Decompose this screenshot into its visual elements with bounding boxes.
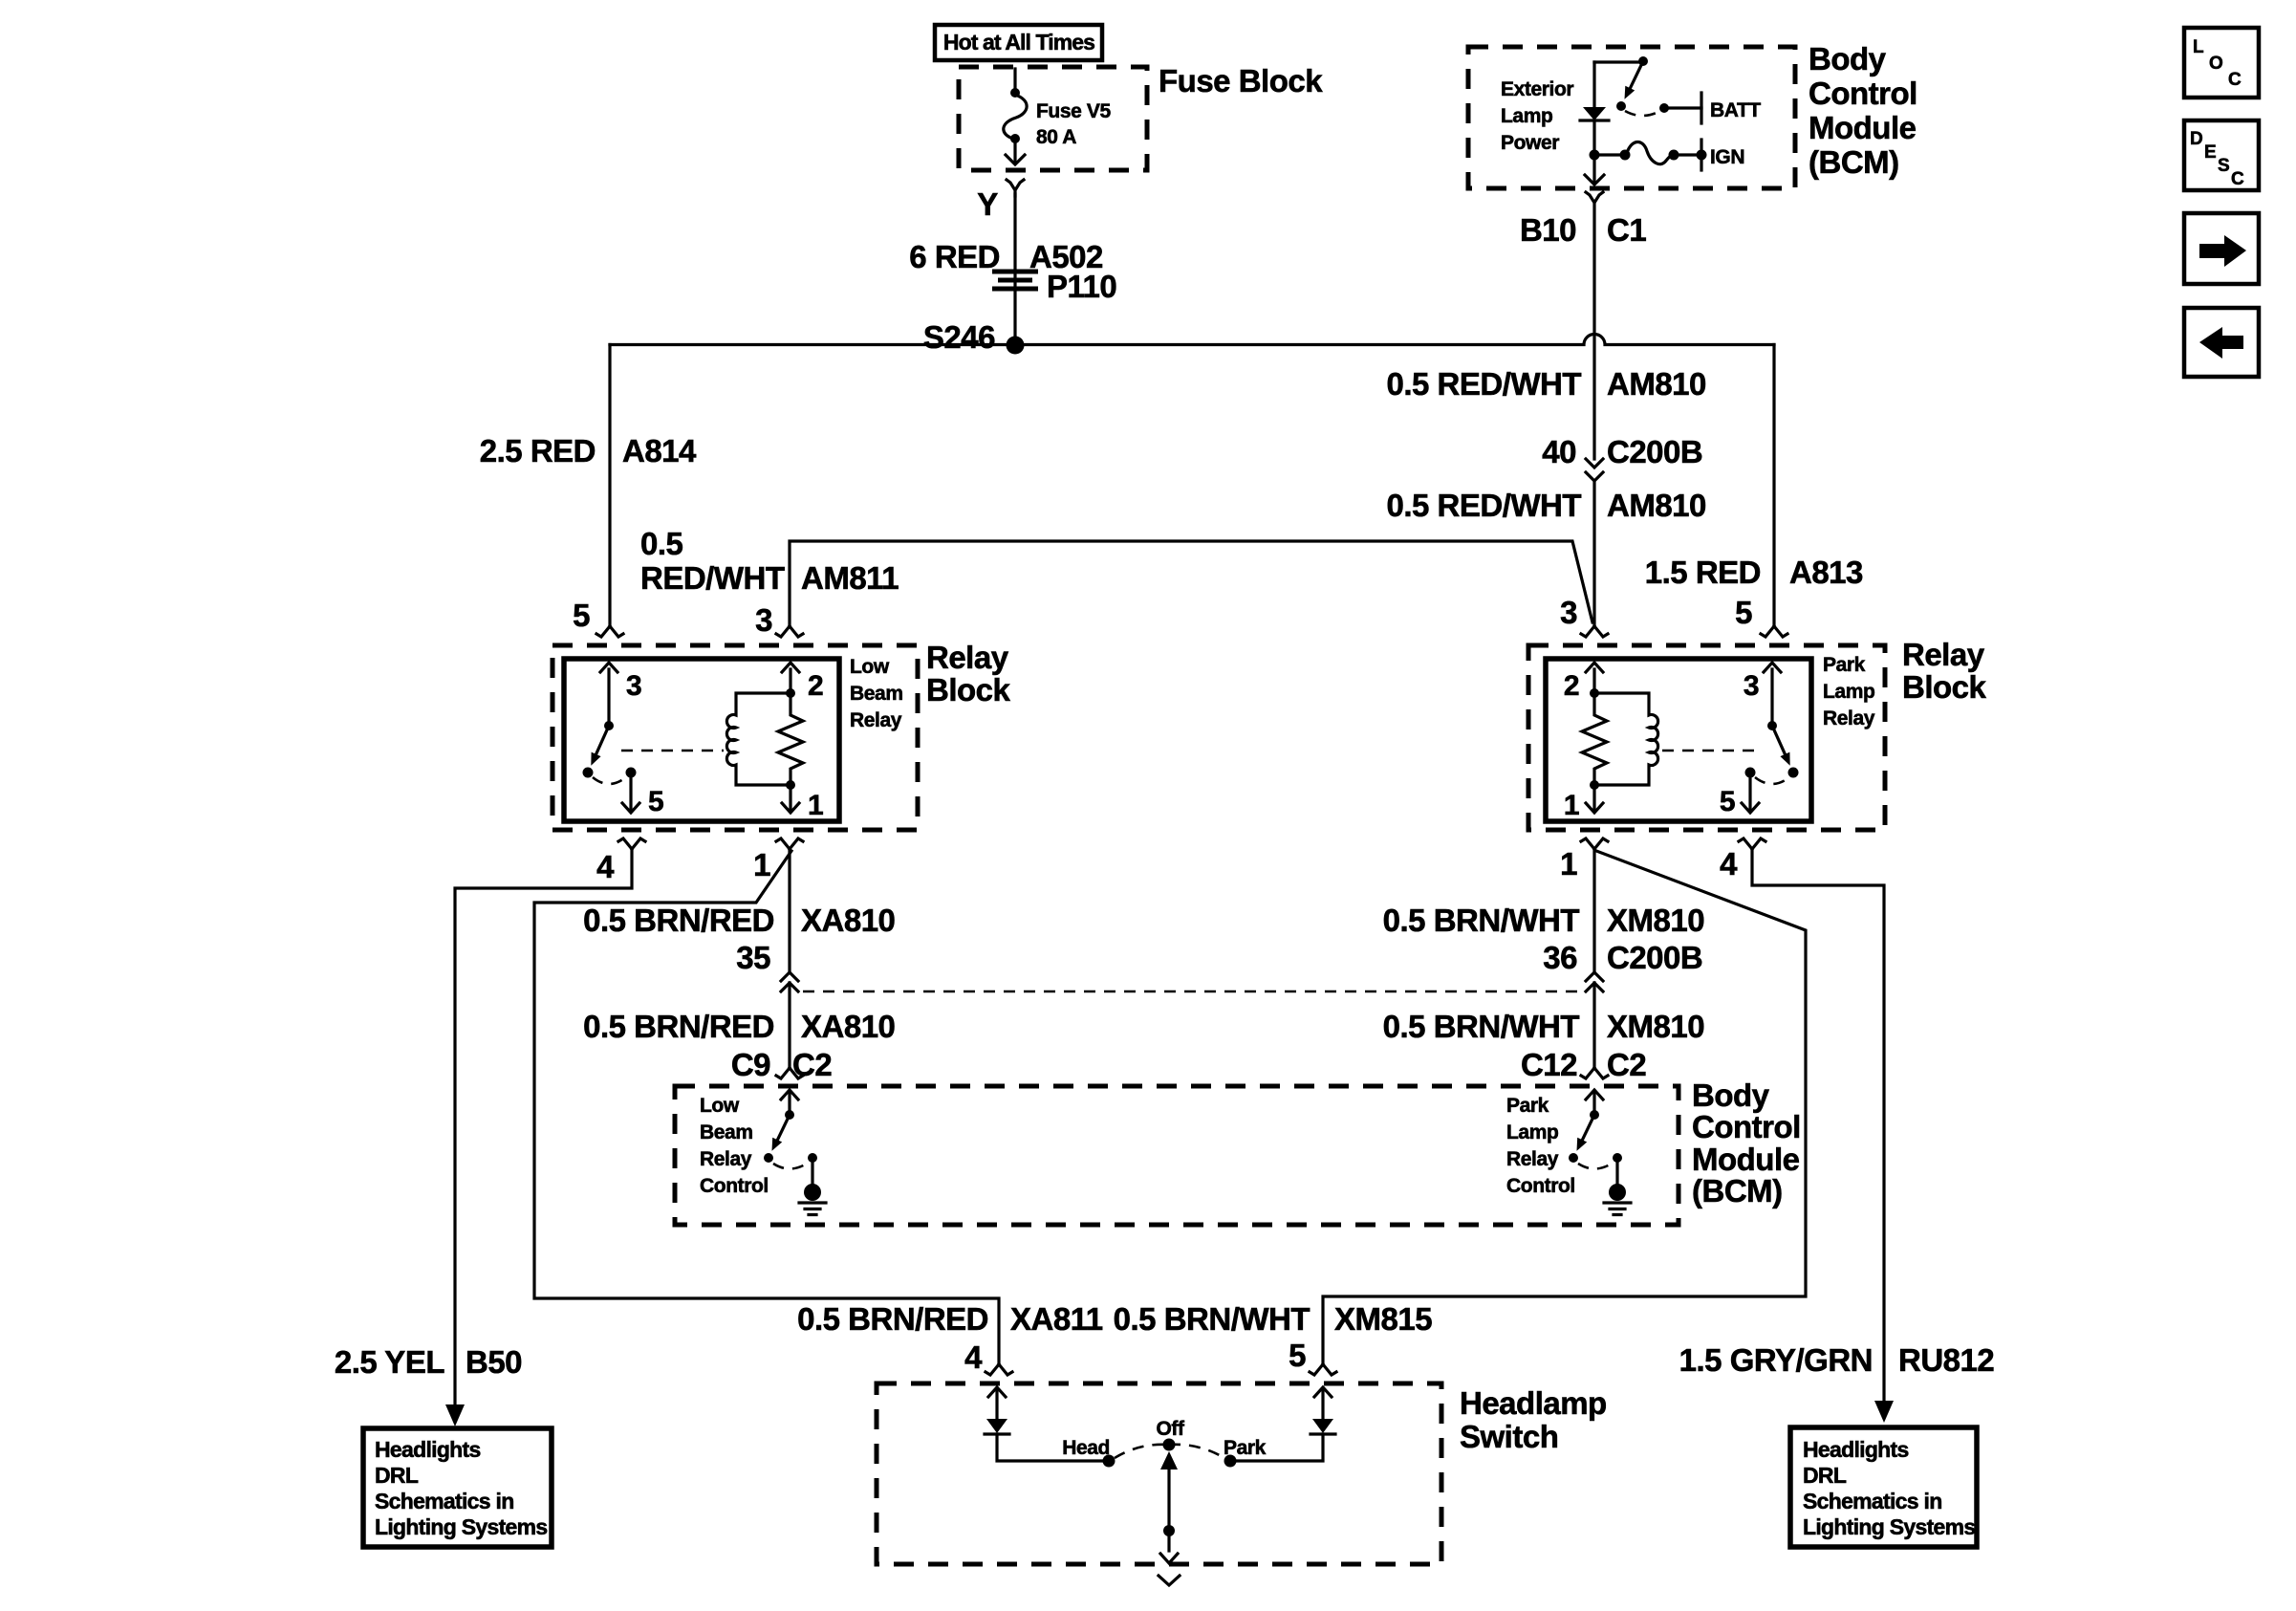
ground bars: [799, 1203, 826, 1215]
Headlamp Switch dashed box: [877, 1383, 1441, 1564]
svg-text:5: 5: [1720, 786, 1735, 817]
svg-text:DRL: DRL: [375, 1463, 419, 1488]
svg-text:Fuse V5: Fuse V5: [1036, 100, 1111, 122]
node top: [1590, 688, 1599, 698]
wire to ground: [1615, 1158, 1618, 1186]
armature arrow: [778, 1115, 790, 1139]
switch arm: [1631, 61, 1643, 87]
Low Beam Relay Control label: [700, 1095, 769, 1197]
headlamp switch internals right diode: [1224, 1387, 1336, 1468]
svg-text:XA811: XA811: [1010, 1301, 1103, 1337]
svg-text:0.5 BRN/WHT: 0.5 BRN/WHT: [1114, 1301, 1310, 1337]
svg-text:XM810: XM810: [1607, 1009, 1704, 1044]
left arrow icon: [2184, 308, 2259, 377]
svg-text:C9: C9: [731, 1047, 770, 1082]
wire fuse to S246: [1013, 194, 1016, 341]
wire connector to pin 3: [1592, 481, 1595, 626]
svg-text:5: 5: [1289, 1338, 1306, 1373]
Headlamp Switch label: [1460, 1385, 1607, 1454]
svg-text:Body: Body: [1692, 1078, 1770, 1113]
svg-text:XA810: XA810: [801, 1009, 895, 1044]
Park Lamp Relay label: [1823, 654, 1875, 729]
wire connector to C9: [788, 983, 791, 1067]
Relay Block label right: [1902, 637, 1987, 705]
svg-text:AM811: AM811: [801, 560, 899, 596]
headlights box left: [363, 1428, 552, 1547]
Body Control Module top dashed box: [1468, 47, 1795, 188]
node bottom: [786, 780, 795, 790]
svg-text:4: 4: [1720, 846, 1738, 882]
diode: [1312, 1419, 1333, 1433]
selector stem: [1160, 1451, 1178, 1563]
Head contact node: [1103, 1455, 1116, 1468]
wire 1.5 RED A813 drop: [1772, 345, 1775, 627]
moving contact node: [1616, 101, 1626, 111]
wire down to box edge: [1592, 155, 1595, 182]
inline connector 36 C200B: [1586, 972, 1603, 991]
terminal 1 wire arrow down: [782, 785, 799, 813]
pin Y below BCM: [1586, 192, 1603, 203]
wire to ground: [811, 1158, 813, 1186]
svg-text:Lamp: Lamp: [1823, 681, 1874, 703]
svg-text:Schematics in: Schematics in: [375, 1489, 514, 1513]
svg-text:Relay: Relay: [1823, 708, 1875, 729]
svg-text:4: 4: [964, 1339, 983, 1375]
BATT contact node: [1659, 103, 1669, 113]
Hot at All Times box: [935, 25, 1102, 60]
svg-text:2.5 RED: 2.5 RED: [480, 433, 596, 468]
pin Y into BCM C2 left: [776, 1068, 803, 1078]
svg-text:3: 3: [1744, 670, 1759, 702]
wire 2.5 RED A814 drop: [608, 345, 611, 627]
wire pin4 right to headlights right: [1752, 849, 1884, 1402]
svg-text:S: S: [2218, 156, 2230, 176]
terminal 1 wire arrow down: [1586, 785, 1603, 813]
Relay Block dashed box right: [1528, 645, 1885, 830]
dashed arc: [773, 1164, 807, 1169]
contact A node: [1788, 768, 1799, 778]
BCM internal circuit: [1580, 56, 1761, 185]
pin 2 arrow up: [1586, 663, 1603, 690]
ground bars: [1604, 1203, 1631, 1215]
Body Control Module (BCM) label: [1809, 41, 1917, 180]
pivot node: [1767, 721, 1777, 730]
svg-text:35: 35: [736, 940, 770, 975]
S246 splice junction dot: [1007, 337, 1025, 355]
terminal 5 wire arrow down: [1742, 773, 1759, 813]
svg-text:Control: Control: [1506, 1175, 1575, 1197]
headlights box right: [1790, 1427, 1977, 1547]
svg-text:Park: Park: [1506, 1095, 1549, 1117]
arrow up to pin: [1586, 1090, 1603, 1115]
svg-text:0.5 BRN/RED: 0.5 BRN/RED: [583, 903, 774, 938]
DESC icon: [2184, 120, 2259, 190]
wire AM811 link left pin3 to right pin3: [790, 541, 1592, 626]
wire top horizontal: [1594, 60, 1640, 63]
svg-text:1: 1: [753, 847, 770, 882]
pin 3 arrow up: [1764, 663, 1781, 726]
coil: [1594, 693, 1658, 785]
pin 3 Y connector left relay: [776, 626, 803, 637]
park lamp relay coil and resistor: [1564, 663, 1658, 821]
svg-text:Control: Control: [700, 1175, 769, 1197]
Off contact node: [1163, 1439, 1176, 1451]
svg-text:Park: Park: [1823, 654, 1866, 676]
wire pin4 to headlights left: [455, 849, 632, 1405]
pivot node: [1590, 1110, 1599, 1120]
dashed arc: [593, 777, 626, 784]
svg-text:Relay: Relay: [1506, 1148, 1559, 1170]
svg-text:5: 5: [573, 598, 590, 633]
park lamp relay switch: [1720, 663, 1799, 817]
node bottom: [1590, 780, 1599, 790]
svg-text:Headlamp: Headlamp: [1460, 1385, 1607, 1421]
svg-text:Exterior: Exterior: [1501, 78, 1573, 100]
svg-text:Relay: Relay: [850, 709, 902, 731]
IGN junction node: [1590, 150, 1600, 161]
arrow into headlights box left: [445, 1404, 465, 1426]
svg-text:L: L: [2193, 37, 2204, 57]
svg-text:0.5 BRN/RED: 0.5 BRN/RED: [797, 1301, 988, 1337]
svg-text:C1: C1: [1607, 212, 1646, 248]
svg-text:C: C: [2228, 70, 2242, 90]
svg-text:80 A: 80 A: [1036, 126, 1076, 148]
LOC icon: [2184, 28, 2259, 98]
Exterior Lamp Power label: [1501, 78, 1573, 154]
wire to Park contact: [1235, 1434, 1323, 1461]
inline connector 35 C200B: [781, 972, 798, 991]
svg-text:DRL: DRL: [1803, 1463, 1847, 1488]
pin Y into BCM C2 right: [1581, 1068, 1608, 1078]
pin 3 arrow up: [600, 663, 617, 726]
svg-text:C200B: C200B: [1607, 940, 1702, 975]
contact B node: [626, 768, 637, 778]
svg-text:2: 2: [1564, 670, 1579, 702]
wire pin1 right straight down XM810: [1592, 849, 1595, 971]
svg-text:Head: Head: [1062, 1437, 1110, 1459]
diode exterior lamp power: [1592, 62, 1595, 107]
pin 3 Y connector right relay: [1581, 626, 1608, 637]
Body Control Module (BCM) label middle: [1692, 1078, 1801, 1208]
low beam relay coil and resistor: [726, 663, 823, 821]
dashed arc: [1755, 777, 1789, 784]
IGN wire: [1594, 153, 1621, 156]
svg-text:Body: Body: [1809, 41, 1887, 76]
svg-text:Headlights: Headlights: [1803, 1437, 1909, 1462]
svg-text:1: 1: [1564, 790, 1579, 821]
wire pin1 right diagonal to headlamp switch pin5: [1323, 851, 1806, 1364]
svg-text:4: 4: [596, 849, 615, 884]
svg-text:Lighting Systems: Lighting Systems: [1803, 1514, 1976, 1539]
svg-text:C: C: [2231, 169, 2244, 189]
relay link dashed line left: [621, 750, 724, 752]
svg-text:IGN: IGN: [1710, 146, 1744, 168]
C200B dashed link line: [803, 991, 1581, 993]
low beam relay inner box: [564, 659, 839, 821]
wire into fuse block: [1013, 69, 1016, 88]
svg-text:(BCM): (BCM): [1809, 144, 1899, 180]
svg-text:0.5 RED/WHT: 0.5 RED/WHT: [1386, 488, 1581, 523]
svg-text:Park: Park: [1224, 1437, 1267, 1459]
svg-text:D: D: [2190, 129, 2203, 149]
IGN squiggle: [1627, 142, 1673, 163]
terminal 5 wire arrow down: [622, 773, 639, 813]
node top: [786, 688, 795, 698]
pin 2 arrow up: [782, 663, 799, 690]
wire pin1 left diagonal to headlamp switch: [534, 851, 999, 1364]
pin 1 Y connector left relay bottom: [776, 838, 803, 849]
arrow into headlights box right: [1874, 1401, 1894, 1423]
right arrow icon: [2184, 213, 2259, 284]
svg-text:2.5 YEL: 2.5 YEL: [335, 1344, 444, 1380]
inline connector C200B: [1586, 459, 1603, 481]
ground dot: [804, 1184, 821, 1201]
svg-text:0.5 BRN/RED: 0.5 BRN/RED: [583, 1009, 774, 1044]
contact A node: [764, 1153, 773, 1163]
svg-text:C12: C12: [1521, 1047, 1577, 1082]
svg-text:Switch: Switch: [1460, 1419, 1558, 1454]
dashed selector arc: [1115, 1445, 1224, 1458]
svg-text:Module: Module: [1809, 110, 1917, 145]
low beam relay switch: [583, 663, 664, 817]
svg-text:1.5 GRY/GRN: 1.5 GRY/GRN: [1679, 1342, 1873, 1378]
svg-text:3: 3: [626, 670, 641, 702]
svg-text:AM810: AM810: [1607, 488, 1706, 523]
svg-text:Lamp: Lamp: [1501, 105, 1552, 127]
svg-text:0.5 BRN/WHT: 0.5 BRN/WHT: [1383, 903, 1580, 938]
svg-text:1: 1: [808, 790, 823, 821]
bus wire S246 with hop over BCM wire: [610, 335, 1774, 345]
headlights text right: [1803, 1437, 1976, 1539]
coil: [726, 693, 791, 785]
arrow up to pin 5: [1314, 1387, 1332, 1419]
park lamp relay control switch: [1569, 1090, 1631, 1215]
svg-text:1: 1: [1560, 846, 1577, 882]
pin chevron below switch box: [1159, 1576, 1180, 1585]
BATT terminal tick: [1700, 93, 1702, 123]
svg-text:Relay: Relay: [700, 1148, 752, 1170]
svg-text:36: 36: [1543, 940, 1577, 975]
armature arrow: [596, 726, 609, 753]
svg-text:3: 3: [755, 602, 772, 638]
svg-text:XM810: XM810: [1607, 903, 1704, 938]
svg-text:Low: Low: [700, 1095, 740, 1117]
svg-text:5: 5: [648, 786, 663, 817]
svg-text:6 RED: 6 RED: [909, 239, 1000, 274]
resistor: [778, 693, 803, 785]
svg-text:C200B: C200B: [1607, 434, 1702, 469]
diode: [986, 1419, 1007, 1433]
headlamp switch internals left diode: [985, 1387, 1116, 1468]
svg-text:A813: A813: [1789, 555, 1863, 590]
svg-text:40: 40: [1542, 434, 1576, 469]
svg-text:Lighting Systems: Lighting Systems: [375, 1514, 548, 1539]
arrow up to pin: [781, 1090, 798, 1115]
svg-text:BATT: BATT: [1710, 99, 1761, 121]
svg-text:Off: Off: [1156, 1418, 1185, 1440]
arrow up to pin 4: [988, 1387, 1006, 1419]
IGN terminal tick: [1700, 140, 1702, 170]
svg-text:0.5: 0.5: [640, 526, 683, 561]
contact B node: [1613, 1153, 1622, 1163]
svg-text:Relay: Relay: [1902, 637, 1985, 672]
svg-text:1.5 RED: 1.5 RED: [1645, 555, 1761, 590]
Park Lamp Relay Control label: [1506, 1095, 1575, 1197]
svg-text:RU812: RU812: [1898, 1342, 1994, 1378]
low beam relay control switch: [764, 1090, 826, 1215]
svg-text:Beam: Beam: [850, 683, 903, 705]
svg-text:A814: A814: [622, 433, 697, 468]
svg-text:Schematics in: Schematics in: [1803, 1489, 1942, 1513]
switch pin 5 Y connector: [1310, 1364, 1336, 1375]
pin 1 Y connector right relay bottom: [1581, 838, 1608, 849]
svg-text:XM815: XM815: [1334, 1301, 1432, 1337]
Fuse Block dashed box: [959, 67, 1147, 170]
svg-text:RED/WHT: RED/WHT: [640, 560, 785, 596]
svg-text:O: O: [2209, 54, 2223, 74]
svg-text:P110: P110: [1047, 269, 1116, 304]
svg-text:Relay: Relay: [926, 640, 1009, 675]
wire connector to C12: [1592, 983, 1595, 1067]
svg-text:Beam: Beam: [700, 1121, 753, 1143]
armature arrow: [1772, 726, 1785, 753]
pivot node: [785, 1110, 794, 1120]
switch pin 4 Y connector: [986, 1364, 1012, 1375]
resistor: [1582, 693, 1607, 785]
contact B node: [808, 1153, 817, 1163]
svg-text:Block: Block: [1902, 669, 1987, 705]
contact A node: [583, 768, 594, 778]
armature arrow: [1583, 1115, 1594, 1139]
wire BCM to relay pin 3: [1592, 203, 1595, 459]
pin 4 Y connector right relay bottom: [1739, 838, 1765, 849]
node top: [1638, 56, 1648, 66]
Park contact node: [1224, 1455, 1237, 1468]
svg-text:B10: B10: [1520, 212, 1576, 248]
BATT wire: [1664, 106, 1701, 109]
dashed arc to BATT: [1625, 111, 1660, 116]
pin 5 Y connector right relay: [1761, 626, 1787, 637]
fuse V5 symbol: [1004, 88, 1027, 164]
Relay Block label left: [926, 640, 1011, 708]
svg-text:0.5 BRN/WHT: 0.5 BRN/WHT: [1383, 1009, 1580, 1044]
dashed arc: [1578, 1164, 1612, 1169]
headlights text left: [375, 1437, 548, 1539]
svg-text:3: 3: [1560, 595, 1577, 630]
contact A node: [1569, 1153, 1578, 1163]
svg-text:Fuse Block: Fuse Block: [1159, 63, 1323, 98]
svg-text:S246: S246: [923, 319, 995, 355]
svg-text:Hot at All Times: Hot at All Times: [943, 30, 1094, 54]
pivot node: [604, 721, 614, 730]
svg-text:AM810: AM810: [1607, 366, 1706, 402]
svg-text:Block: Block: [926, 672, 1011, 708]
svg-text:Low: Low: [850, 656, 890, 678]
svg-text:C2: C2: [1607, 1047, 1646, 1082]
contact B node: [1745, 768, 1756, 778]
ground dot: [1609, 1184, 1626, 1201]
relay link dashed line right: [1662, 750, 1762, 752]
svg-text:Lamp: Lamp: [1506, 1121, 1558, 1143]
grommet P110: [992, 272, 1038, 289]
svg-text:XA810: XA810: [801, 903, 895, 938]
svg-text:Y: Y: [977, 186, 998, 222]
Body Control Module middle dashed box: [675, 1086, 1679, 1225]
svg-text:0.5 RED/WHT: 0.5 RED/WHT: [1386, 366, 1581, 402]
wire pin1 left straight down XA810: [788, 849, 791, 971]
svg-text:(BCM): (BCM): [1692, 1173, 1783, 1208]
svg-text:5: 5: [1735, 595, 1752, 630]
park lamp relay inner box: [1546, 659, 1811, 821]
pin Y below fuse block: [1007, 180, 1024, 196]
svg-text:Headlights: Headlights: [375, 1437, 481, 1462]
svg-text:Module: Module: [1692, 1142, 1800, 1177]
svg-text:Power: Power: [1501, 132, 1559, 154]
Low Beam Relay label: [850, 656, 903, 731]
pin 4 Y connector left relay bottom: [618, 838, 645, 849]
Relay Block dashed box left: [552, 645, 918, 830]
svg-text:Control: Control: [1692, 1109, 1801, 1144]
svg-text:Control: Control: [1809, 76, 1917, 111]
wire to Head contact: [997, 1434, 1104, 1461]
svg-text:E: E: [2204, 142, 2217, 163]
svg-text:2: 2: [808, 670, 823, 702]
svg-text:B50: B50: [466, 1344, 522, 1380]
pin 5 Y connector left relay: [596, 626, 623, 637]
